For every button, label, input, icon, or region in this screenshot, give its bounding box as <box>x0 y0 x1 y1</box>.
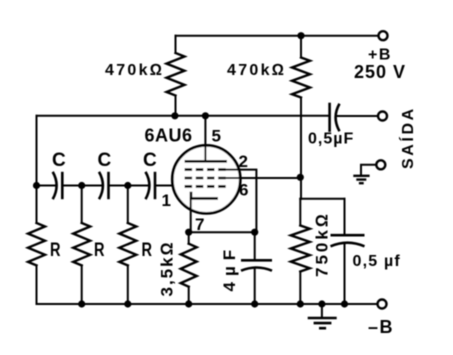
node top rail junction <box>297 32 304 39</box>
resistor 750k <box>299 199 301 226</box>
tube V1 6AU6 envelope <box>172 145 240 213</box>
node rail 3,5k <box>185 300 192 307</box>
svg-text:6AU6: 6AU6 <box>145 125 193 145</box>
node B <box>78 182 85 189</box>
resistor R 470k (plate load) <box>175 36 177 53</box>
resistor 3,5k cathode <box>188 232 190 244</box>
svg-text:470kΩ: 470kΩ <box>227 62 286 79</box>
terminal +B <box>379 31 388 40</box>
node plate pin5 junction <box>202 112 209 119</box>
capacitor C1 <box>53 172 57 199</box>
resistor 470k (screen dropper) <box>300 36 302 58</box>
resistor R3 <box>119 223 136 265</box>
wire terminal to ground <box>361 165 376 175</box>
capacitor 4uF cathode bypass <box>254 232 256 260</box>
capacitor C2 <box>99 172 103 199</box>
svg-text:C: C <box>143 150 157 171</box>
svg-text:5: 5 <box>212 126 221 145</box>
svg-text:–B: –B <box>368 317 394 337</box>
terminal SAIDA ground side <box>376 160 385 169</box>
svg-text:0,5 µf: 0,5 µf <box>353 253 401 270</box>
node C <box>124 182 131 189</box>
ground (output) <box>353 176 369 183</box>
wire to output terminal <box>338 115 378 117</box>
resistor R1 <box>28 223 45 265</box>
svg-text:6: 6 <box>239 181 248 200</box>
svg-text:C: C <box>52 150 66 171</box>
terminal SAIDA out <box>378 112 387 121</box>
wire node C resistor stub <box>127 186 129 224</box>
pin 7 wire <box>190 198 192 232</box>
node suppressor/cap junction <box>251 229 258 236</box>
grid rows (dashed) <box>185 170 226 187</box>
svg-text:SAÍDA: SAÍDA <box>398 106 417 169</box>
node A <box>33 182 40 189</box>
svg-text:R: R <box>94 240 105 261</box>
node rail 0,5uF <box>341 300 348 307</box>
wire C1 to node B to C2 <box>62 185 102 187</box>
wire plate line <box>37 115 330 117</box>
node cathode junction <box>185 229 192 236</box>
capacitor C3 <box>146 172 150 199</box>
svg-text:750kΩ: 750kΩ <box>313 211 332 277</box>
wire C3 to grid pin1 <box>155 185 187 187</box>
wire node A to C1 <box>37 185 57 187</box>
wire cathode network <box>189 231 255 233</box>
svg-text:R: R <box>142 240 153 261</box>
svg-text:2: 2 <box>239 152 248 171</box>
cathode <box>191 192 218 199</box>
wire left vertical <box>36 116 38 223</box>
pin 2 wire (suppressor, corner down to cathode line) <box>224 170 256 233</box>
svg-text:7: 7 <box>195 215 204 234</box>
terminal -B <box>378 300 387 309</box>
svg-text:+B: +B <box>368 47 392 64</box>
resistor R2 <box>73 223 90 265</box>
wire top supply rail <box>176 35 379 37</box>
pin 5 wire (plate to supply line) <box>204 116 206 162</box>
node screen junction <box>297 174 304 181</box>
node rail R3 <box>124 300 131 307</box>
node plate load junction <box>171 112 178 119</box>
svg-text:4µF: 4µF <box>220 244 239 292</box>
svg-text:R: R <box>50 240 61 261</box>
svg-text:C: C <box>98 150 112 171</box>
svg-text:470kΩ: 470kΩ <box>105 62 164 79</box>
wire bottom rail <box>37 303 378 305</box>
capacitor 0,5uF screen bypass <box>344 199 346 235</box>
wire C2 to node C to C3 <box>109 185 149 187</box>
svg-text:250 V: 250 V <box>354 62 406 82</box>
svg-text:1: 1 <box>162 191 171 210</box>
node rail 750k <box>297 300 304 307</box>
wire screen dropper to screen node (crosses plate wire, no connection) <box>300 98 302 199</box>
svg-text:3,5kΩ: 3,5kΩ <box>158 240 177 296</box>
node rail 4uF <box>251 300 258 307</box>
svg-text:0,5µF: 0,5µF <box>308 131 354 148</box>
pin 6 wire (screen grid to dropper node) <box>226 177 300 179</box>
capacitor 0,5uF output coupling <box>328 103 331 132</box>
wire node B resistor stub <box>81 186 83 224</box>
node rail ground <box>318 300 325 307</box>
plate (anode) bar <box>185 160 227 163</box>
node rail R2 <box>78 300 85 307</box>
wire screen network top <box>300 198 344 200</box>
ground (main) <box>321 304 323 317</box>
